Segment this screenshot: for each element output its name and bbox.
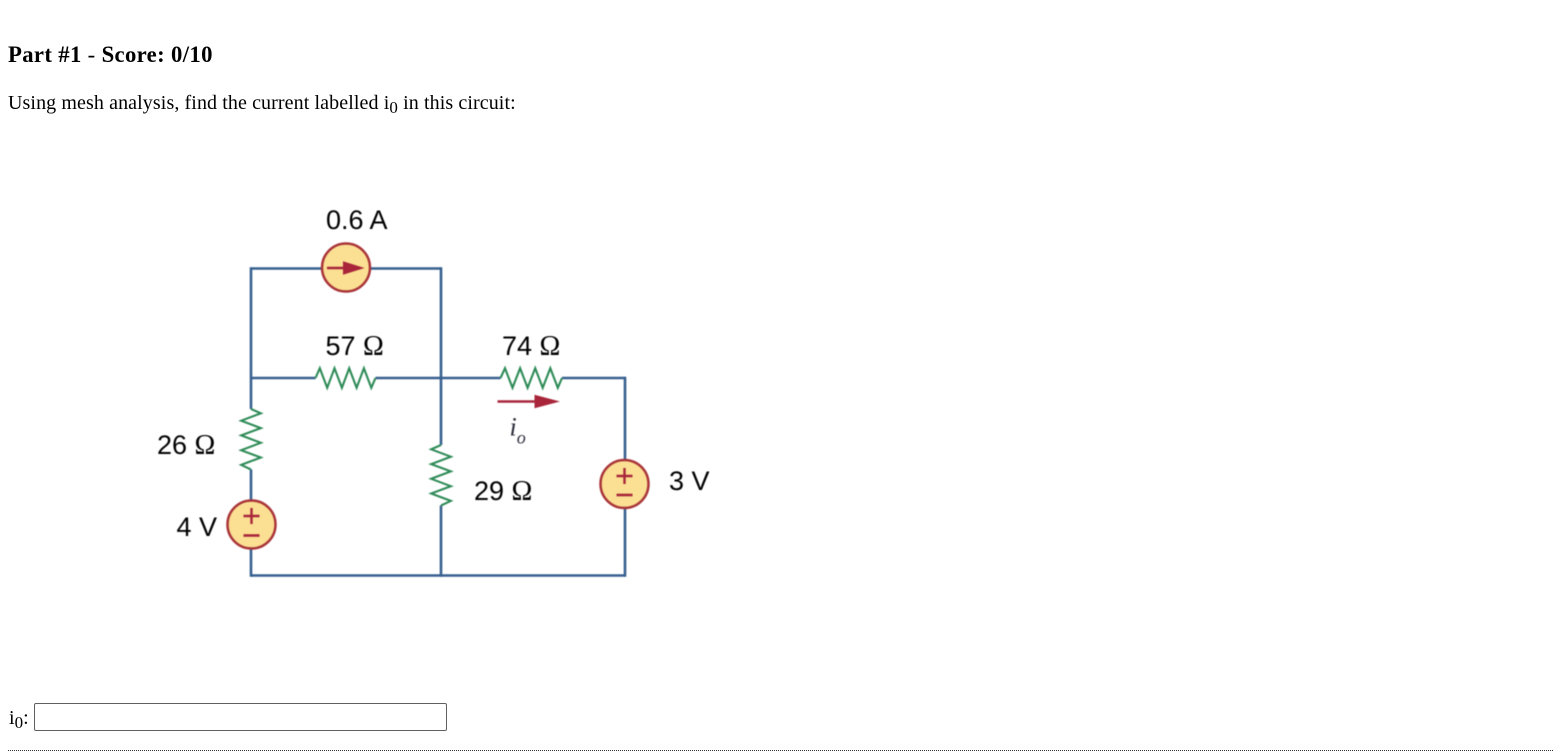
wire middle vertical upper [440,267,443,445]
wire right vertical [624,377,627,577]
current io arrow [498,400,538,403]
wire middle vertical lower [440,506,443,577]
svg-text:26 Ω: 26 Ω [157,430,215,461]
resistor 26ohm [241,409,261,470]
wire middle horizontal left segment [251,377,316,380]
dotted separator [8,750,1553,751]
svg-text:74 Ω: 74 Ω [502,331,560,362]
4V plus sign [244,508,260,524]
svg-text:57 Ω: 57 Ω [326,331,384,362]
current source 0.6A circle [322,244,370,292]
3V minus sign [617,494,633,497]
wire middle horizontal right segment [562,377,625,380]
wire top (node A to node B) [251,267,441,270]
heading [8,44,213,67]
wire left vertical lower [250,470,253,577]
voltage source 3V circle [601,460,649,508]
svg-text:io: io [510,413,526,448]
resistor 74ohm [501,368,563,388]
answer label i0: [9,708,29,728]
resistor 57ohm [316,368,376,388]
answer input box [34,703,447,731]
3V plus sign [617,468,633,484]
svg-text:4 V: 4 V [177,512,218,542]
svg-text:29 Ω: 29 Ω [474,476,532,507]
wire middle horizontal center segment [376,377,501,380]
wire bottom [251,574,625,577]
problem statement [8,93,516,113]
svg-text:0.6 A: 0.6 A [326,205,388,235]
4V minus sign [244,534,260,537]
svg-text:3 V: 3 V [669,466,710,496]
current source arrow [327,267,345,270]
resistor 29ohm [431,445,451,506]
voltage source 4V circle [228,501,276,549]
wire left vertical upper [250,267,253,409]
